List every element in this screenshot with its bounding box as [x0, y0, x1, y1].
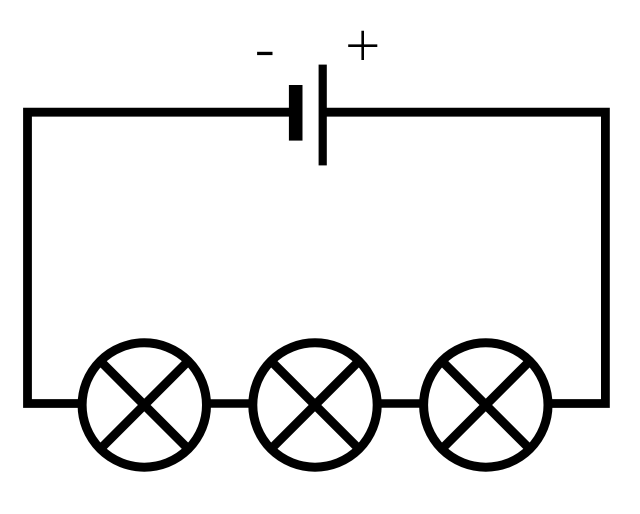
wire: lamp L2 to lamp L3	[377, 399, 424, 408]
battery cell	[289, 65, 327, 166]
wire: from battery negative terminal left along top, down left side, along bottom to lamp L1	[28, 112, 296, 403]
lamp L1	[82, 343, 206, 467]
battery positive plate (long thin bar)	[319, 65, 327, 166]
wire: lamp L1 to lamp L2	[206, 399, 253, 408]
lamp L2	[253, 343, 377, 467]
battery negative plate (short thick bar)	[289, 85, 303, 141]
polarity label - (minus)	[257, 52, 272, 55]
polarity label + (plus)	[348, 31, 377, 60]
lamp L3	[424, 343, 548, 467]
wire: lamp L3 along bottom, up right side, left along top to battery positive terminal	[324, 112, 605, 403]
